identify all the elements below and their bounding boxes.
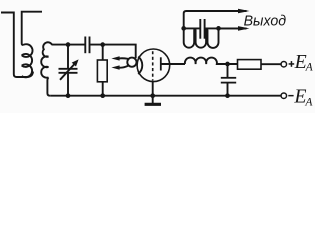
svg-text:A: A <box>304 96 313 109</box>
svg-text:Выход: Выход <box>244 13 287 29</box>
svg-text:A: A <box>305 60 314 73</box>
